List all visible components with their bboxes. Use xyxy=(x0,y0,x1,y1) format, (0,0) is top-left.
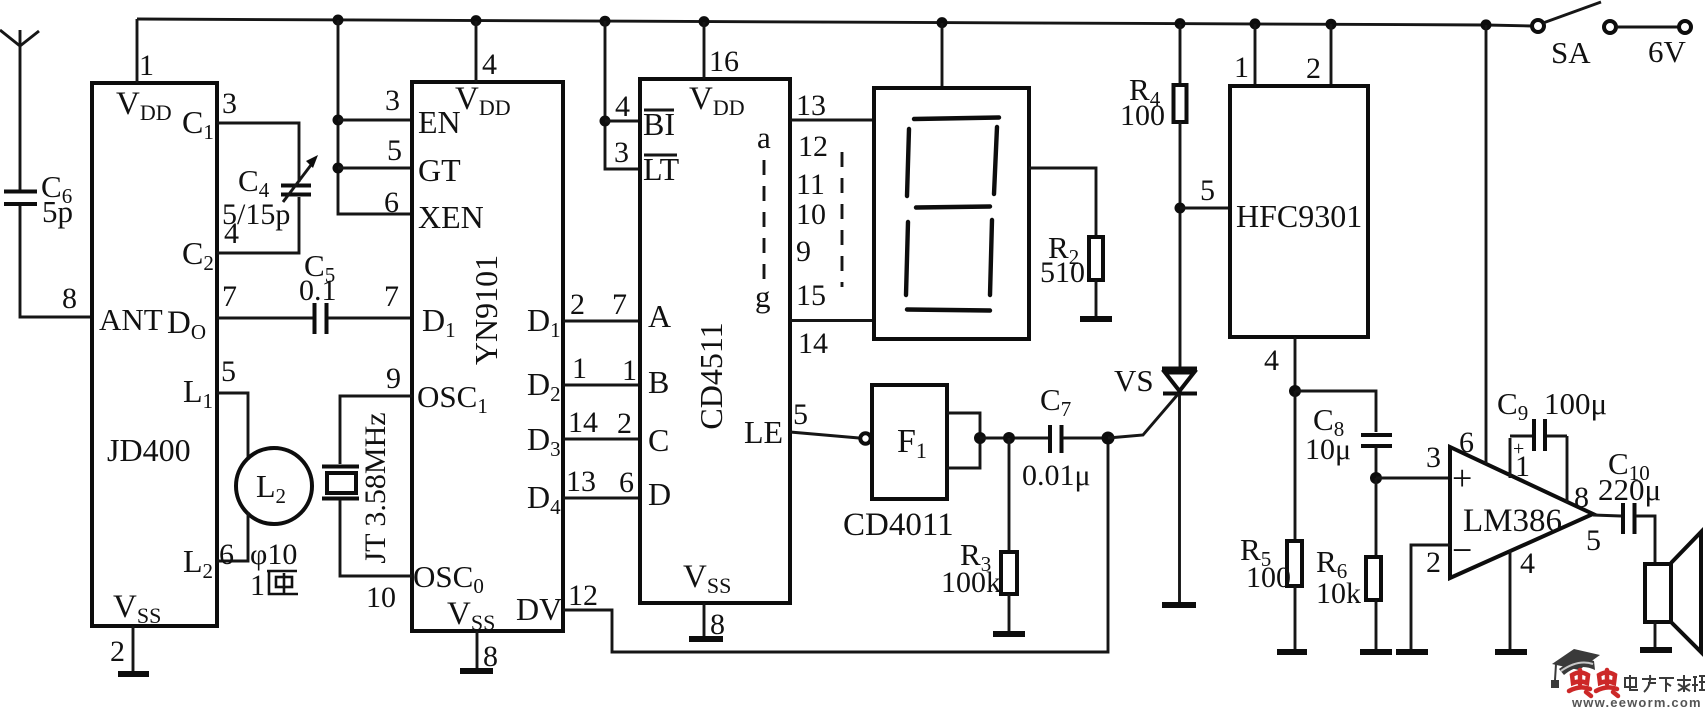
svg-text:12: 12 xyxy=(798,130,828,163)
svg-text:VSS: VSS xyxy=(447,596,495,635)
capacitor C7 xyxy=(1022,382,1091,492)
svg-text:2: 2 xyxy=(570,288,585,321)
IC HFC9301 xyxy=(1230,86,1368,337)
svg-text:VSS: VSS xyxy=(683,559,731,598)
svg-text:YN9101: YN9101 xyxy=(468,255,504,365)
svg-text:C4: C4 xyxy=(238,163,270,202)
node bus junction at EN/GT drop xyxy=(333,15,344,26)
wire output pin 5 to C10 xyxy=(1593,515,1621,516)
svg-text:6V: 6V xyxy=(1648,34,1687,69)
capacitor C5 xyxy=(299,248,337,334)
svg-text:10: 10 xyxy=(366,581,396,614)
wire F1 output to C7 xyxy=(980,437,1048,440)
node EN tap xyxy=(333,115,344,126)
ground (speaker) xyxy=(1640,647,1672,653)
svg-text:13: 13 xyxy=(566,465,596,498)
wire BI xyxy=(605,120,640,123)
capacitor C6 xyxy=(4,169,73,229)
watermark worm characters xyxy=(1569,670,1618,696)
wire LM386 pin 6 drop from bus xyxy=(1485,25,1488,464)
svg-text:5: 5 xyxy=(793,398,808,431)
node bus junction at HFC9301 pin2 xyxy=(1326,19,1337,30)
node HFC9301 pin5 tap xyxy=(1175,203,1186,214)
IC CD4511 xyxy=(640,79,790,603)
svg-text:+: + xyxy=(1452,458,1472,498)
svg-text:5: 5 xyxy=(221,355,236,388)
thyristor VS xyxy=(1114,363,1197,398)
ground (YN9101) xyxy=(460,668,493,674)
wire HFC9301 pin 1 riser xyxy=(1254,24,1257,86)
wire HFC9301 pin 2 riser xyxy=(1330,24,1333,86)
resistor R2 xyxy=(1040,230,1103,289)
wire junction to C8 xyxy=(1295,391,1376,432)
node R3 tap xyxy=(1003,432,1015,444)
svg-text:6: 6 xyxy=(384,186,399,219)
svg-text:12: 12 xyxy=(568,579,598,612)
wire VSS pin 2 to ground xyxy=(132,626,135,673)
svg-text:JT 3.58MHz: JT 3.58MHz xyxy=(359,412,392,563)
node bus junction at R4 xyxy=(1175,18,1186,29)
svg-text:A: A xyxy=(648,298,671,334)
battery 6V terminals xyxy=(1604,21,1691,69)
svg-text:D1: D1 xyxy=(422,302,456,342)
svg-text:4: 4 xyxy=(224,217,239,250)
svg-text:F1: F1 xyxy=(897,423,927,463)
wire OSC1 to crystal xyxy=(340,396,412,464)
ground (R6) xyxy=(1360,649,1392,655)
svg-text:3: 3 xyxy=(222,87,237,120)
wire D2 to B xyxy=(563,384,640,387)
svg-text:OSC1: OSC1 xyxy=(417,379,488,418)
wire D3 to C xyxy=(563,438,640,441)
svg-text:LE: LE xyxy=(744,414,783,450)
op-amp LM386 xyxy=(1450,447,1593,578)
gate F1 (CD4011 NAND) xyxy=(843,385,954,543)
wire speaker to ground xyxy=(1654,622,1657,649)
svg-text:JD400: JD400 xyxy=(107,432,191,468)
svg-text:C: C xyxy=(648,422,669,458)
svg-text:100: 100 xyxy=(1246,561,1291,594)
svg-text:CD4511: CD4511 xyxy=(693,322,729,429)
wire C7 to node xyxy=(1063,437,1108,440)
svg-text:510: 510 xyxy=(1040,256,1085,289)
wire CD4511 VSS pin 8 to ground xyxy=(703,603,706,638)
svg-text:4: 4 xyxy=(1264,344,1279,377)
svg-text:2: 2 xyxy=(617,407,632,440)
ground (CD4511) xyxy=(689,636,723,642)
svg-text:5: 5 xyxy=(1586,524,1601,557)
svg-text:VDD: VDD xyxy=(689,81,745,120)
svg-text:10k: 10k xyxy=(1316,577,1361,610)
svg-text:7: 7 xyxy=(222,280,237,313)
svg-text:4: 4 xyxy=(1520,547,1535,580)
wire VS cathode to ground xyxy=(1178,394,1181,604)
wire D1 to A xyxy=(563,320,640,323)
node bus junction at HFC9301 pin1 xyxy=(1250,18,1261,29)
ground (LM386 pin4) xyxy=(1495,649,1527,655)
pin 1 stub xyxy=(1509,438,1512,478)
capacitor C10 xyxy=(1598,446,1661,534)
svg-text:a: a xyxy=(757,120,771,155)
svg-text:14: 14 xyxy=(568,406,598,439)
IC YN9101 xyxy=(412,81,563,635)
wire JD400 VDD pin 1 riser xyxy=(136,19,139,83)
wire crystal to OSC0 xyxy=(340,500,412,576)
wire R4 drop from bus xyxy=(1179,24,1182,85)
svg-text:100μ: 100μ xyxy=(1544,386,1607,421)
wire junction to R5 xyxy=(1294,391,1297,541)
ground (VS) xyxy=(1162,602,1196,608)
svg-text:3: 3 xyxy=(614,136,629,169)
wire D4 to D xyxy=(563,497,640,500)
wire R6 to ground xyxy=(1375,600,1378,651)
ground (R5) xyxy=(1277,649,1307,655)
switch SA xyxy=(1532,2,1601,70)
svg-text:9: 9 xyxy=(796,235,811,268)
ground (R2) xyxy=(1080,316,1112,322)
wire CD4511 VDD pin 16 riser xyxy=(703,22,706,79)
wire R4 to VS anode xyxy=(1179,122,1182,367)
node bus junction at CD4511 VDD xyxy=(699,16,710,27)
svg-text:VDD: VDD xyxy=(455,81,511,120)
svg-text:5p: 5p xyxy=(42,194,73,229)
svg-text:D3: D3 xyxy=(527,421,561,461)
ground (LM386 pin2) xyxy=(1396,649,1428,655)
svg-text:C2: C2 xyxy=(182,235,214,275)
svg-text:2: 2 xyxy=(1306,52,1321,85)
svg-text:6: 6 xyxy=(1459,426,1474,459)
seven-segment display xyxy=(874,88,1029,339)
svg-text:100k: 100k xyxy=(941,566,1001,599)
watermark eeworm logo graduation cap xyxy=(1551,649,1600,688)
wire EN xyxy=(338,119,412,122)
wire antenna to ANT pin 8 xyxy=(20,206,92,317)
wire R3 to ground xyxy=(1008,594,1011,633)
svg-text:C1: C1 xyxy=(182,104,214,144)
svg-text:16: 16 xyxy=(709,45,739,78)
antenna xyxy=(0,30,39,190)
node F1 output xyxy=(974,432,986,444)
resistor R5 xyxy=(1240,532,1302,594)
resistor R4 xyxy=(1120,72,1187,132)
wire display anode riser xyxy=(941,23,944,88)
svg-text:EN: EN xyxy=(418,104,461,140)
svg-text:8: 8 xyxy=(483,640,498,673)
svg-text:0.1: 0.1 xyxy=(299,274,337,307)
svg-text:D1: D1 xyxy=(527,302,561,342)
svg-text:1: 1 xyxy=(250,569,265,602)
inductor L2 coil xyxy=(236,448,312,524)
svg-text:OSC0: OSC0 xyxy=(413,559,484,598)
svg-text:10: 10 xyxy=(796,198,826,231)
svg-text:8: 8 xyxy=(710,608,725,641)
svg-text:D: D xyxy=(648,476,671,512)
svg-text:10μ: 10μ xyxy=(1305,433,1351,466)
node BI tap xyxy=(600,116,611,127)
svg-text:+: + xyxy=(1513,438,1524,460)
wire L1 pin to coil xyxy=(217,393,248,460)
crystal JT 3.58MHz xyxy=(322,412,392,563)
wire C10 to speaker xyxy=(1636,516,1655,563)
wire bus to BI/LT xyxy=(605,21,640,169)
wire pin 8 stub xyxy=(1566,436,1569,503)
svg-text:7: 7 xyxy=(384,280,399,313)
svg-text:3: 3 xyxy=(385,84,400,117)
capacitor C9 (polar) xyxy=(1497,386,1607,460)
wire D0 to C5 xyxy=(217,317,313,320)
wire F1 output feedback loop xyxy=(947,413,980,468)
svg-text:C9: C9 xyxy=(1497,386,1528,425)
svg-text:D2: D2 xyxy=(527,366,561,406)
svg-text:GT: GT xyxy=(418,152,461,188)
wire dashed segment bundle xyxy=(841,152,844,287)
svg-text:1: 1 xyxy=(139,49,154,82)
svg-text:LM386: LM386 xyxy=(1463,503,1562,539)
svg-text:CD4011: CD4011 xyxy=(843,507,954,543)
resistor R6 xyxy=(1316,544,1381,610)
wire pin 2 to ground xyxy=(1411,545,1450,651)
wire YN9101 VSS pin 8 to ground xyxy=(476,631,479,670)
node bus junction at display anode xyxy=(937,17,948,28)
svg-text:11: 11 xyxy=(796,168,825,201)
wire LE to F1 input xyxy=(790,432,859,438)
svg-text:SA: SA xyxy=(1551,35,1591,70)
svg-text:6: 6 xyxy=(219,538,234,571)
svg-text:6: 6 xyxy=(619,466,634,499)
svg-text:9: 9 xyxy=(386,362,401,395)
ground (R3) xyxy=(993,631,1025,637)
wire DV pin 12 feedback to C7 node xyxy=(563,438,1108,652)
svg-text:ANT: ANT xyxy=(99,302,163,337)
wire R3 drop xyxy=(1008,438,1011,552)
svg-text:8: 8 xyxy=(62,282,77,315)
svg-text:B: B xyxy=(648,364,669,400)
wire YN9101 VDD pin 4 riser xyxy=(475,21,478,82)
svg-text:HFC9301: HFC9301 xyxy=(1236,198,1362,234)
node pin 3 tap xyxy=(1370,472,1382,484)
svg-text:φ10: φ10 xyxy=(250,538,297,571)
svg-text:2: 2 xyxy=(110,635,125,668)
svg-text:13: 13 xyxy=(796,89,826,122)
svg-text:1: 1 xyxy=(572,352,587,385)
resistor R3 xyxy=(941,537,1017,599)
capacitor C8 (polar) xyxy=(1305,402,1392,466)
node C7 output xyxy=(1102,432,1115,445)
node bus junction at YN9101 VDD xyxy=(471,15,482,26)
wire C5 to YN9101 D1 xyxy=(328,317,412,320)
wire display common to R2 xyxy=(1029,168,1096,237)
wire top supply bus xyxy=(137,19,1532,26)
svg-text:1: 1 xyxy=(622,354,637,387)
svg-text:14: 14 xyxy=(798,327,828,360)
wire segment g to display xyxy=(790,319,874,322)
wire bus to EN/GT/XEN xyxy=(338,20,412,214)
svg-text:C7: C7 xyxy=(1040,382,1071,421)
wire node to LM386 pin 3 xyxy=(1376,477,1450,480)
wire R2 to ground xyxy=(1095,280,1098,318)
node bus junction at BI/LT drop xyxy=(600,16,611,27)
speaker BL xyxy=(1645,532,1701,652)
node pin4 junction xyxy=(1289,385,1301,397)
svg-text:g: g xyxy=(755,279,771,314)
svg-text:DV: DV xyxy=(516,591,562,627)
node bus junction at LM386 pin6 xyxy=(1481,19,1492,30)
svg-text:8: 8 xyxy=(1574,481,1589,514)
svg-text:4: 4 xyxy=(482,48,497,81)
svg-text:100: 100 xyxy=(1120,99,1165,132)
wire VS gate to C7 node xyxy=(1108,393,1179,438)
svg-text:D4: D4 xyxy=(527,479,561,519)
watermark site name xyxy=(1625,675,1705,692)
svg-text:5: 5 xyxy=(387,134,402,167)
svg-text:5: 5 xyxy=(1200,174,1215,207)
wire C1 pin to C4 xyxy=(217,123,299,182)
wire R5 to ground xyxy=(1294,586,1297,651)
wire C4 to C2 pin xyxy=(217,197,299,253)
wire node to R6 xyxy=(1375,478,1378,557)
capacitor C4 (variable) xyxy=(222,155,318,231)
node GT tap xyxy=(333,163,344,174)
svg-text:L2: L2 xyxy=(256,468,286,508)
wire segment a to display xyxy=(790,119,874,122)
svg-text:L1: L1 xyxy=(183,373,213,413)
svg-text:3: 3 xyxy=(1426,441,1441,474)
svg-text:VS: VS xyxy=(1114,363,1154,398)
svg-text:L2: L2 xyxy=(183,543,213,583)
wire coil to L2 pin xyxy=(217,512,248,561)
svg-text:4: 4 xyxy=(615,90,630,123)
svg-text:1: 1 xyxy=(1234,51,1249,84)
ground (JD400) xyxy=(118,671,149,677)
svg-text:www.eeworm.com: www.eeworm.com xyxy=(1571,695,1702,708)
wire C8 to pin 3 node xyxy=(1375,447,1378,478)
svg-text:XEN: XEN xyxy=(418,199,484,235)
wire GT xyxy=(338,167,412,170)
svg-text:VDD: VDD xyxy=(116,86,172,125)
svg-text:VSS: VSS xyxy=(113,589,161,628)
svg-text:DO: DO xyxy=(167,305,206,344)
wire HFC9301 pin 4 to junction xyxy=(1294,337,1297,391)
svg-text:2: 2 xyxy=(1426,546,1441,579)
wire to HFC9301 pin 5 xyxy=(1180,207,1230,210)
svg-text:220μ: 220μ xyxy=(1598,472,1661,507)
wire pin 4 to ground xyxy=(1509,550,1512,651)
svg-text:15: 15 xyxy=(796,279,826,312)
svg-text:0.01μ: 0.01μ xyxy=(1022,459,1091,492)
IC JD400 xyxy=(92,83,217,628)
svg-text:7: 7 xyxy=(612,288,627,321)
